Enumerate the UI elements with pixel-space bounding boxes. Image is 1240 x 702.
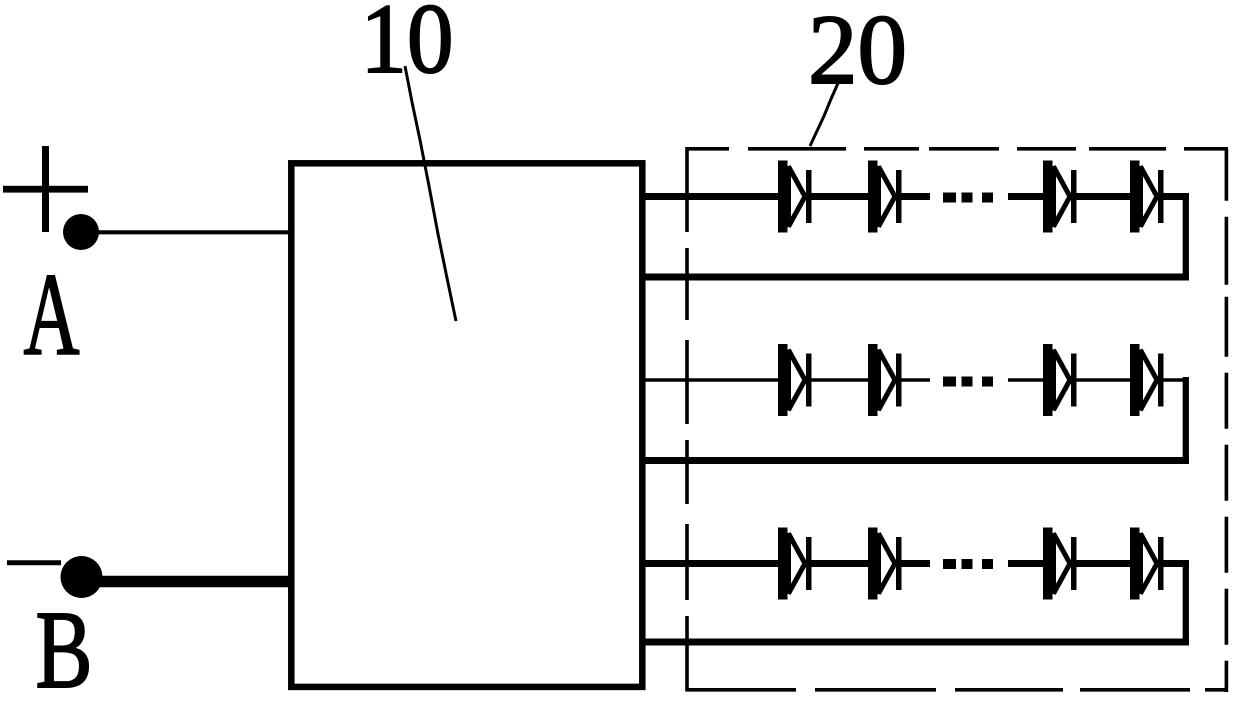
svg-text:20: 20 [808,0,907,105]
LED D3 [1043,161,1077,233]
string 1 feed wire (right part) [1008,193,1189,200]
dashed box 20 left border [685,147,689,692]
string 2 ellipsis dots [943,377,993,387]
svg-text:B: B [36,589,93,702]
string 1 feed wire (left part) [640,193,930,200]
dashed box 20 right border [1225,149,1229,692]
LED D11 [1043,528,1077,600]
leader line from label 10 into block [405,66,456,321]
LED D10 [868,528,902,600]
string 3 return wire [642,639,1189,646]
plus polarity symbol [3,146,88,232]
LED D4 [1130,161,1164,233]
string 2 feed wire (left part, thin) [640,378,930,382]
LED D5 [778,344,812,416]
svg-text:A: A [24,249,80,380]
string 3 right vertical wire [1183,560,1189,642]
leader line from label 20 to dashed box [810,81,839,146]
string 2 return wire [642,457,1189,464]
LED D8 [1130,344,1164,416]
wire from node A to block 10 [97,230,292,234]
string 3 feed wire (left part) [640,560,930,567]
string 1 return wire [642,274,1189,281]
block 10 (driver box) [291,163,642,687]
dashed box 20 top border [686,147,1228,151]
LED D7 [1043,344,1077,416]
string 3 feed wire (right part) [1008,560,1189,567]
string 2 right vertical wire [1183,377,1189,461]
LED D12 [1130,528,1164,600]
LED D9 [778,528,812,600]
dashed box 20 bottom border [686,688,1228,692]
node A terminal dot [63,214,99,250]
string 1 ellipsis dots [943,193,993,203]
string 2 feed wire (right part, thin) [1008,378,1187,382]
LED D1 [778,161,812,233]
node B terminal dot [61,556,103,598]
wire from node B to block 10 (thick) [99,576,292,588]
wire stub at node B [7,560,61,565]
LED D2 [868,161,902,233]
string 3 ellipsis dots [943,559,993,569]
LED D6 [868,344,902,416]
string 1 right vertical wire [1183,193,1189,277]
